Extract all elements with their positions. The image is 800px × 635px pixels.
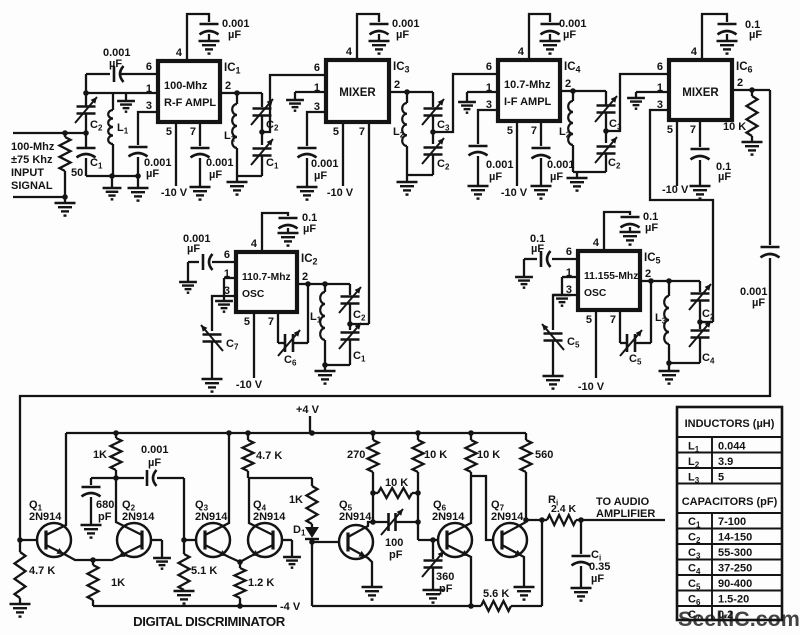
svg-text:1K: 1K <box>111 577 125 589</box>
svg-text:10.7-Mhz: 10.7-Mhz <box>504 79 551 91</box>
svg-text:INPUT: INPUT <box>11 167 44 179</box>
svg-text:MIXER: MIXER <box>339 87 376 99</box>
svg-text:µF: µF <box>148 457 161 469</box>
svg-text:µF: µF <box>752 297 765 309</box>
svg-text:2N914: 2N914 <box>195 511 228 523</box>
svg-text:2: 2 <box>394 79 400 91</box>
svg-text:µF: µF <box>531 243 544 255</box>
svg-text:5: 5 <box>333 126 339 138</box>
svg-text:pF: pF <box>389 549 403 561</box>
svg-text:2: 2 <box>225 80 231 92</box>
svg-text:5: 5 <box>586 314 592 326</box>
svg-text:90-400: 90-400 <box>718 578 752 590</box>
svg-text:6: 6 <box>224 249 230 261</box>
svg-text:µF: µF <box>563 29 576 41</box>
svg-text:0.35: 0.35 <box>589 561 610 573</box>
svg-text:0.044: 0.044 <box>718 441 746 453</box>
svg-text:R-F AMPL: R-F AMPL <box>164 97 216 109</box>
svg-text:-10 V: -10 V <box>236 379 263 391</box>
svg-text:100: 100 <box>385 537 403 549</box>
svg-text:7: 7 <box>690 124 696 136</box>
svg-text:µF: µF <box>718 171 731 183</box>
svg-text:µF: µF <box>303 223 316 235</box>
svg-text:10 K: 10 K <box>385 477 408 489</box>
svg-text:I-F AMPL: I-F AMPL <box>504 96 552 108</box>
svg-text:5: 5 <box>718 472 724 484</box>
svg-text:270: 270 <box>347 449 365 461</box>
svg-text:DIGITAL DISCRIMINATOR: DIGITAL DISCRIMINATOR <box>133 614 286 629</box>
svg-text:6: 6 <box>566 246 572 258</box>
svg-text:2N914: 2N914 <box>339 511 372 523</box>
svg-text:µF: µF <box>187 243 200 255</box>
svg-text:2N914: 2N914 <box>122 511 155 523</box>
svg-text:0.001: 0.001 <box>547 159 575 171</box>
svg-text:14-150: 14-150 <box>718 532 752 544</box>
svg-text:4: 4 <box>593 237 600 249</box>
svg-text:6: 6 <box>314 62 320 74</box>
svg-text:2N914: 2N914 <box>29 511 62 523</box>
svg-text:5: 5 <box>244 316 250 328</box>
svg-text:AMPLIFIER: AMPLIFIER <box>596 508 655 520</box>
svg-text:2: 2 <box>565 78 571 90</box>
svg-text:4.7 K: 4.7 K <box>256 450 282 462</box>
svg-text:5.6 K: 5.6 K <box>483 588 509 600</box>
svg-text:6: 6 <box>486 61 492 73</box>
svg-text:4: 4 <box>691 46 698 58</box>
svg-text:4: 4 <box>346 46 353 58</box>
svg-text:1K: 1K <box>93 449 107 461</box>
svg-text:7-100: 7-100 <box>718 516 746 528</box>
svg-text:1.5-20: 1.5-20 <box>718 594 749 606</box>
svg-text:-10 V: -10 V <box>578 381 605 393</box>
svg-text:µF: µF <box>591 573 604 585</box>
svg-text:11.155-Mhz: 11.155-Mhz <box>584 271 638 282</box>
svg-text:4: 4 <box>176 47 183 59</box>
svg-text:SIGNAL: SIGNAL <box>11 180 53 192</box>
svg-text:OSC: OSC <box>242 289 265 300</box>
svg-text:MIXER: MIXER <box>682 87 719 99</box>
svg-text:0.001: 0.001 <box>311 158 339 170</box>
svg-text:2N914: 2N914 <box>253 511 286 523</box>
svg-text:37-250: 37-250 <box>718 563 752 575</box>
svg-text:360: 360 <box>436 571 454 583</box>
svg-text:µF: µF <box>109 58 122 70</box>
svg-text:+4 V: +4 V <box>296 404 320 416</box>
svg-text:4: 4 <box>251 238 258 250</box>
svg-text:±75 Khz: ±75 Khz <box>11 154 53 166</box>
svg-text:7: 7 <box>610 314 616 326</box>
svg-text:0.001: 0.001 <box>486 159 514 171</box>
svg-text:2.4 K: 2.4 K <box>551 503 577 515</box>
svg-text:7: 7 <box>531 125 537 137</box>
svg-text:CAPACITORS (pF): CAPACITORS (pF) <box>682 496 778 508</box>
svg-text:2: 2 <box>302 271 308 283</box>
svg-text:µF: µF <box>209 169 222 181</box>
svg-text:560: 560 <box>535 449 553 461</box>
svg-text:INDUCTORS (µH): INDUCTORS (µH) <box>685 418 775 430</box>
svg-text:7: 7 <box>268 316 274 328</box>
svg-text:10 K: 10 K <box>723 121 746 133</box>
svg-text:10 K: 10 K <box>477 449 500 461</box>
svg-text:7: 7 <box>359 126 365 138</box>
svg-text:µF: µF <box>228 29 241 41</box>
svg-text:TO AUDIO: TO AUDIO <box>596 496 650 508</box>
svg-text:0.001: 0.001 <box>206 157 234 169</box>
svg-text:3: 3 <box>146 100 152 112</box>
svg-text:5: 5 <box>667 124 673 136</box>
svg-text:-4 V: -4 V <box>280 601 301 613</box>
svg-text:1.2 K: 1.2 K <box>248 577 274 589</box>
svg-text:10 K: 10 K <box>424 449 447 461</box>
svg-text:µF: µF <box>645 222 658 234</box>
svg-text:680: 680 <box>96 499 114 511</box>
svg-text:OSC: OSC <box>584 288 607 299</box>
svg-text:SeekIC.com: SeekIC.com <box>678 607 800 631</box>
svg-text:-10 V: -10 V <box>662 184 689 196</box>
svg-text:55-300: 55-300 <box>718 547 752 559</box>
svg-text:2: 2 <box>645 268 651 280</box>
svg-text:7: 7 <box>190 126 196 138</box>
svg-text:0.001: 0.001 <box>141 444 169 456</box>
svg-text:5: 5 <box>166 126 172 138</box>
svg-text:µF: µF <box>146 168 159 180</box>
svg-text:6: 6 <box>146 61 152 73</box>
svg-text:µF: µF <box>396 29 409 41</box>
svg-text:110.7-Mhz: 110.7-Mhz <box>242 272 291 283</box>
svg-text:5: 5 <box>507 125 513 137</box>
svg-text:2: 2 <box>737 77 743 89</box>
svg-text:5.1 K: 5.1 K <box>191 565 217 577</box>
svg-text:pF: pF <box>439 583 453 595</box>
svg-text:4.7 K: 4.7 K <box>29 565 55 577</box>
svg-text:pF: pF <box>98 511 112 523</box>
svg-text:50: 50 <box>71 167 83 179</box>
svg-text:2N914: 2N914 <box>432 511 465 523</box>
svg-text:100-Mhz: 100-Mhz <box>164 80 208 92</box>
svg-text:1K: 1K <box>289 494 303 506</box>
svg-text:3.9: 3.9 <box>718 456 733 468</box>
svg-text:100-Mhz: 100-Mhz <box>11 141 55 153</box>
svg-text:µF: µF <box>314 170 327 182</box>
svg-text:µF: µF <box>749 29 762 41</box>
svg-text:6: 6 <box>657 61 663 73</box>
svg-text:-10 V: -10 V <box>161 187 188 199</box>
svg-text:µF: µF <box>550 171 563 183</box>
svg-text:4: 4 <box>518 46 525 58</box>
svg-text:µF: µF <box>489 171 502 183</box>
svg-text:2N914: 2N914 <box>491 511 524 523</box>
svg-text:-10 V: -10 V <box>327 187 354 199</box>
svg-text:-10 V: -10 V <box>501 187 528 199</box>
